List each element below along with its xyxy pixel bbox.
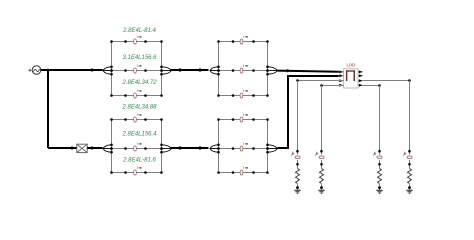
label current value ('2.8E4L34.72', 82) xyxy=(121,80,157,86)
svg-text:I: I xyxy=(137,64,138,68)
ammeter probe G3-3 xyxy=(134,166,142,175)
node pin3 elbow xyxy=(296,79,299,82)
ground load 3 xyxy=(376,188,382,194)
node G2 branch 1 junctions xyxy=(217,40,269,43)
node G1 bundle taps xyxy=(110,66,163,76)
node G3 branch 3 junctions xyxy=(110,171,163,174)
ammeter probe G4-3 xyxy=(240,166,248,175)
node G1 branch 1 junctions xyxy=(110,40,163,43)
ammeter probe load 1 xyxy=(291,152,301,159)
node U1 right pins xyxy=(358,70,363,86)
node pin1 wire junction xyxy=(286,69,289,72)
AC source V1 xyxy=(28,66,40,75)
ground load 1 xyxy=(294,188,300,194)
svg-text:I: I xyxy=(243,89,244,93)
ammeter probe G2-3 xyxy=(240,89,248,98)
label current value ('2.8E4L156.4', 133.5) xyxy=(121,132,157,138)
wire vertical drop to lower feeder xyxy=(47,70,49,148)
svg-text:I: I xyxy=(137,113,138,117)
svg-text:I: I xyxy=(373,153,374,157)
wire bundle splitter right of G2 xyxy=(268,67,278,74)
node pin8 elbow xyxy=(378,84,381,87)
ammeter probe G3-1 xyxy=(134,113,142,122)
wire G2 to U1 pin 1 xyxy=(277,71,339,72)
wire G1 branch 2 xyxy=(112,70,162,72)
ammeter probe load 2 xyxy=(315,152,325,159)
node G4 branch 2 junctions xyxy=(217,147,269,150)
node load branch 4 top junction xyxy=(408,150,411,153)
node G3-G4 wire junctions xyxy=(178,146,201,149)
wire G1 branch 1 xyxy=(112,41,162,43)
ammeter probe G1-3 xyxy=(134,89,142,98)
node load branch 3 top junction xyxy=(378,150,381,153)
ammeter probe G4-1 xyxy=(240,113,248,122)
node load branch 1 bottom junction xyxy=(296,186,299,189)
node G4 branch 3 junctions xyxy=(217,171,269,174)
wire load branch 2 vertical xyxy=(321,86,323,169)
node G2 branch 3 junctions xyxy=(217,94,269,97)
wire G2 branch 2 xyxy=(219,70,268,72)
ammeter probe G2-1 xyxy=(240,35,248,44)
label U1 name xyxy=(346,63,355,68)
wire G2 branch 1 xyxy=(219,41,268,43)
resistor load 1 xyxy=(296,169,300,188)
wire G2 left rail xyxy=(218,42,220,96)
wire G4 branch 2 xyxy=(219,148,268,150)
svg-text:2.8E4L34.72: 2.8E4L34.72 xyxy=(121,80,157,86)
ammeter probe G3-2 xyxy=(134,142,142,151)
node fuse left junction xyxy=(71,147,74,150)
svg-text:I: I xyxy=(291,153,292,157)
ammeter probe G1-2 xyxy=(134,64,142,73)
wire bundle splitter left of G2 xyxy=(210,67,219,74)
wire G4 left rail xyxy=(218,120,220,173)
ammeter probe load 3 xyxy=(373,152,383,159)
svg-text:I: I xyxy=(137,142,138,146)
wire G3 branch 2 xyxy=(112,148,162,150)
svg-text:I: I xyxy=(403,153,404,157)
node G3 branch 2 junctions xyxy=(110,147,163,150)
wire bundle splitter right of G1 xyxy=(162,67,172,74)
resistor load 2 xyxy=(320,169,324,188)
node load branch 1 top junction xyxy=(296,150,299,153)
resistor load 4 xyxy=(408,169,412,188)
wire G1 right rail xyxy=(161,42,163,96)
wire U1 pin 3 to load branch 1 xyxy=(298,80,344,82)
wire G1 left rail xyxy=(111,42,113,96)
wire G3 branch 3 xyxy=(112,172,162,174)
node load branch 2 bottom junction xyxy=(320,186,323,189)
node G3 branch 1 junctions xyxy=(110,118,163,121)
node load branch 3 mid junction xyxy=(378,163,381,166)
svg-text:2.8E4L156.4: 2.8E4L156.4 xyxy=(121,132,157,138)
wire bundle splitter left of G1 xyxy=(103,67,112,74)
node pin4 elbow xyxy=(320,84,323,87)
node G4 branch 1 junctions xyxy=(217,118,269,121)
svg-text:LDD: LDD xyxy=(346,63,355,68)
node G1 branch 3 junctions xyxy=(110,94,163,97)
wire G4 branch 1 xyxy=(219,119,268,121)
node feeder junction xyxy=(47,69,94,72)
svg-text:2.8E4L-81.4: 2.8E4L-81.4 xyxy=(122,28,156,34)
svg-text:I: I xyxy=(137,89,138,93)
svg-text:I: I xyxy=(243,166,244,170)
node G3 bundle taps xyxy=(110,144,163,154)
wire G2 branch 3 xyxy=(219,95,268,97)
wire G3 to G4 xyxy=(171,147,209,149)
wire bundle splitter left of G3 xyxy=(103,145,112,152)
svg-text:I: I xyxy=(243,64,244,68)
svg-text:I: I xyxy=(243,142,244,146)
node G2 bundle taps xyxy=(217,66,269,76)
wire source to group G1 xyxy=(41,69,103,71)
node U1 left pins xyxy=(339,70,344,86)
node load branch 4 bottom junction xyxy=(408,186,411,189)
resistor load 3 xyxy=(378,169,382,188)
fuse F1 xyxy=(77,144,87,152)
ammeter probe G4-2 xyxy=(240,142,248,151)
wire lower feeder to fuse xyxy=(48,147,77,149)
wire U1 pin 8 to load branch 3 xyxy=(363,85,380,87)
ammeter probe G2-2 xyxy=(240,64,248,73)
label current value ('2.8E4L-81.4', 30) xyxy=(122,28,156,34)
svg-text:2.8E4L34.88: 2.8E4L34.88 xyxy=(121,105,157,111)
node load branch 4 mid junction xyxy=(408,163,411,166)
svg-text:2.8E4L-81.6: 2.8E4L-81.6 xyxy=(122,158,156,164)
wire G4 branch 3 xyxy=(219,172,268,174)
ground load 2 xyxy=(318,188,324,194)
ammeter probe G1-1 xyxy=(134,35,142,44)
label current value ('2.8E4L-81.6', 159.5) xyxy=(122,158,156,164)
svg-text:I: I xyxy=(137,166,138,170)
wire G1 branch 3 xyxy=(112,95,162,97)
node pin7 elbow xyxy=(408,79,411,82)
label current value ('3.1E4L156.6', 57) xyxy=(122,55,157,61)
node load branch 2 top junction xyxy=(320,150,323,153)
node G4 bundle taps xyxy=(217,144,269,154)
svg-text:I: I xyxy=(243,113,244,117)
wire G3 left rail xyxy=(111,120,113,173)
node G2 branch 2 junctions xyxy=(217,69,269,72)
svg-text:I: I xyxy=(315,153,316,157)
svg-text:3.1E4L156.6: 3.1E4L156.6 xyxy=(122,55,157,61)
node fuse right junction xyxy=(91,147,94,150)
node G1-G2 wire junctions xyxy=(178,68,201,71)
wire bundle splitter left of G4 xyxy=(210,145,219,152)
ammeter probe load 4 xyxy=(403,152,413,159)
wire G2 right rail xyxy=(267,42,269,96)
wire fuse to group G3 xyxy=(87,147,102,149)
IC U1 body xyxy=(344,69,358,88)
wire U1 pin 4 to load branch 2 xyxy=(322,85,344,87)
wire U1 pin 2 return to G4 xyxy=(277,76,339,148)
wire load branch 3 vertical xyxy=(379,86,381,169)
node load branch 2 mid junction xyxy=(320,163,323,166)
wire G4 right rail xyxy=(267,120,269,173)
wire bundle splitter right of G3 xyxy=(162,145,172,152)
node load branch 1 mid junction xyxy=(296,163,299,166)
node G1 branch 2 junctions xyxy=(110,69,163,72)
svg-text:I: I xyxy=(243,35,244,39)
wire load branch 4 vertical xyxy=(409,81,411,169)
wire G1 to G2 xyxy=(171,69,209,71)
label current value ('2.8E4L34.88', 106.5) xyxy=(121,105,157,111)
wire G3 right rail xyxy=(161,120,163,173)
svg-text:I: I xyxy=(137,35,138,39)
wire bundle splitter right of G4 xyxy=(268,145,278,152)
ground load 4 xyxy=(406,188,412,194)
wire load branch 1 vertical xyxy=(297,81,299,169)
node load branch 3 bottom junction xyxy=(378,186,381,189)
wire G3 branch 1 xyxy=(112,119,162,121)
wire U1 pin 7 to load branch 4 xyxy=(363,80,410,82)
